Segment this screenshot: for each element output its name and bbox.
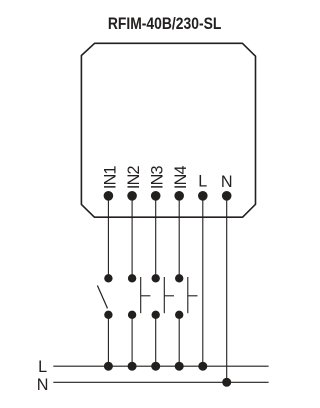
- junction IN3/L: [151, 362, 160, 371]
- wire S1 to L bus: [107, 315, 109, 366]
- svg-text:IN2: IN2: [125, 166, 143, 190]
- wire IN3 terminal to button S3: [155, 196, 157, 278]
- svg-text:L: L: [38, 358, 47, 376]
- wire IN1 terminal to switch S1: [107, 196, 109, 278]
- wire N bus: [53, 381, 268, 383]
- svg-text:RFIM-40B/230-SL: RFIM-40B/230-SL: [108, 14, 222, 33]
- junction IN2/L: [128, 362, 137, 371]
- push-button S4 (IN4): [175, 274, 198, 319]
- terminal IN1: [104, 191, 114, 201]
- terminal IN3: [151, 191, 161, 201]
- svg-text:N: N: [37, 376, 49, 394]
- terminal IN2: [127, 191, 137, 201]
- junction IN1/L: [104, 362, 113, 371]
- wire L bus: [53, 365, 268, 367]
- wire S3 to L bus: [155, 315, 157, 366]
- wire S2 to L bus: [131, 315, 133, 366]
- svg-text:IN3: IN3: [149, 166, 167, 190]
- junction N/N bus: [222, 378, 231, 387]
- wire IN2 terminal to button S2: [131, 196, 133, 278]
- wire L terminal to L bus: [202, 196, 204, 366]
- junction L/L bus: [198, 362, 207, 371]
- push-button S3 (IN3): [152, 274, 175, 319]
- svg-text:L: L: [198, 172, 207, 190]
- terminal L: [198, 191, 208, 201]
- wire S4 to L bus: [178, 315, 180, 366]
- wire N terminal to N bus: [226, 196, 228, 382]
- module U1 outline (octagon body): [81, 43, 255, 217]
- switch S1 (IN1): [97, 274, 112, 319]
- junction IN4/L: [175, 362, 184, 371]
- terminal N: [222, 191, 232, 201]
- svg-text:N: N: [221, 173, 233, 191]
- svg-text:IN1: IN1: [101, 166, 119, 190]
- push-button S2 (IN2): [128, 274, 150, 319]
- svg-text:IN4: IN4: [172, 166, 190, 190]
- wire IN4 terminal to button S4: [178, 196, 180, 278]
- terminal IN4: [174, 191, 184, 201]
